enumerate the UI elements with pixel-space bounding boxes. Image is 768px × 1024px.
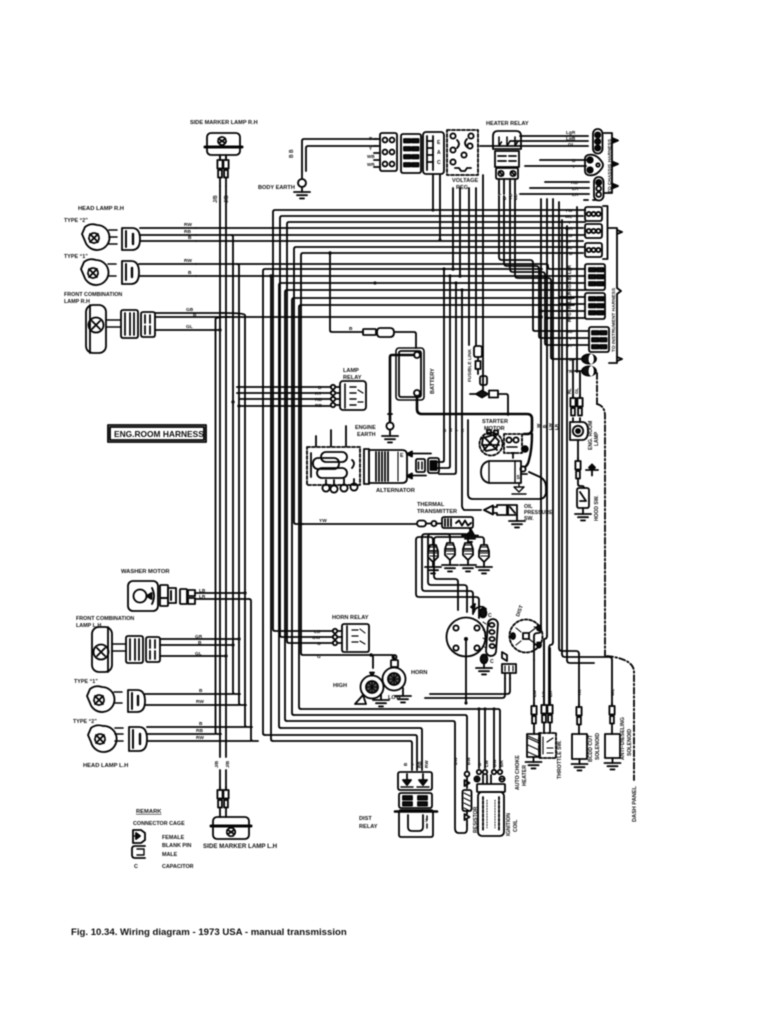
RB LR LR labels [571,180,579,198]
auto choke wire label LW [532,689,537,697]
wire fan y269 [263,269,542,735]
washer wires [195,593,249,599]
heater relay wire drops to F block [499,196,575,359]
throttle sw box [539,733,556,758]
spark plug 4 [476,545,492,573]
head lamp LH type1 [87,686,122,712]
front combination lamp RH [86,305,120,353]
horn relay row labels [312,629,321,660]
YW wire [301,518,442,527]
wires LH type1 [145,694,239,705]
heater relay connector [496,168,518,179]
alternator label [376,488,416,494]
connector pair on side marker RH wire 2 [223,157,228,178]
wires type2 to bus [140,228,196,241]
svg-text:ENGINE: ENGINE [355,425,376,431]
svg-text:REMARK: REMARK [136,809,162,815]
wire fan y298 [292,298,574,715]
svg-text:DIST: DIST [515,604,525,618]
svg-text:LR: LR [572,186,579,192]
fusible link elements [474,346,487,385]
head lamp RH type1 [81,259,116,285]
front combination lamp LH label [76,616,134,629]
voltage reg label [452,178,478,191]
svg-text:COIL: COIL [513,819,519,832]
dash panel label [632,785,638,822]
side marker LH wires2 [220,808,226,818]
svg-text:LgR: LgR [566,130,576,136]
svg-text:TO CHASSIS HARNESS: TO CHASSIS HARNESS [607,138,613,193]
svg-text:GL: GL [195,651,202,657]
connector block D1 [585,207,602,221]
svg-text:LAMP: LAMP [594,431,600,446]
svg-text:FRONT COMBINATION: FRONT COMBINATION [64,292,122,298]
junction dots bundle [464,701,495,710]
instrument harness wire labels upper [565,208,573,256]
svg-text:A: A [437,150,441,156]
front comb LH connector1 [126,636,143,663]
battery label [430,368,436,394]
dash panel boundary upper [596,373,598,404]
type1 LH label [74,679,98,685]
alternator feed verticals [431,269,481,510]
svg-text:LR: LR [199,594,206,600]
svg-text:J/B: J/B [224,195,230,203]
side marker lamp RH body [205,133,242,155]
starter motor label [482,419,508,432]
wire fan y290 [285,290,560,721]
starter cable bullet [520,466,525,471]
coil wire labels [477,759,504,767]
bullet B low [573,354,596,398]
WL label [610,689,615,696]
ignition coil body [477,784,505,836]
bus wire x239 [237,264,246,705]
dist relay wire labels [403,760,429,768]
junction dot G [369,653,372,656]
throttle connectors [541,641,552,733]
bundle line y709 to coil wires [301,709,500,768]
stubs into E blocks [560,269,585,318]
anti diesel connector [609,660,614,734]
ignition coil terminals [474,770,504,783]
engine earth label [355,425,376,438]
verticals from voltage reg to fusible link [469,188,476,345]
auto choke connector [531,660,536,734]
coil wire BW [493,709,495,768]
bullet YR low [575,366,596,398]
svg-text:ENG.ROOM HARNESS: ENG.ROOM HARNESS [114,429,204,439]
connector block E1 [585,264,605,290]
connector block A [374,133,397,171]
svg-text:B: B [188,270,192,276]
spark plug 1 [425,545,441,573]
fusible link label [467,348,473,382]
resistor label [473,806,479,833]
remark heading [136,809,162,815]
starter ground [512,483,526,494]
starter thick cable hook [525,434,532,467]
hood fuse pair [575,458,580,479]
coil wire B [478,709,480,768]
svg-text:Y: Y [454,429,459,432]
svg-text:HEAD LAMP L.H: HEAD LAMP L.H [83,763,128,769]
to chassis harness text [607,138,613,193]
svg-text:RW: RW [196,699,204,705]
svg-text:RB: RB [417,761,422,768]
svg-text:S: S [517,475,521,481]
bus wire side marker B [225,186,227,757]
wire LR bullet [530,187,589,189]
alternator E terminal [400,452,439,479]
throttle labels LY LR [541,690,553,697]
connector block D3 [585,243,602,257]
bundle line y741 to dist relay [273,741,412,770]
D block bracket [603,206,608,259]
svg-text:LB: LB [314,629,321,635]
dist relay label [359,816,378,830]
lamp relay row labels [315,385,322,409]
battery cable to engine earth [390,355,414,421]
battery cable to starter [417,396,532,434]
starter body [481,461,527,483]
svg-text:G: G [317,654,321,660]
svg-text:SIDE MARKER LAMP L.H: SIDE MARKER LAMP L.H [203,843,278,850]
horn relay [342,624,369,652]
lamp relay pins [331,385,340,407]
bcdd label [588,733,601,762]
svg-text:VOLTAGE: VOLTAGE [452,178,478,184]
washer motor label [121,569,170,575]
body earth terminal [294,171,310,198]
female label [162,835,185,841]
thermal transmitter label [417,502,457,515]
svg-text:TRANSMITTER: TRANSMITTER [417,509,457,515]
wire GL to chassis [480,145,588,147]
wire B with bullet to battery [330,253,416,348]
male label [162,852,178,858]
svg-text:TYPE “2”: TYPE “2” [73,719,97,725]
wire second earth branch [306,146,377,171]
svg-text:RL: RL [567,388,572,394]
svg-text:B: B [403,762,408,766]
through verticals from bullets [562,220,567,660]
resistor bullet top [465,772,470,788]
head lamp LH type2 connector [129,727,147,751]
svg-text:HEATER: HEATER [522,765,528,786]
svg-text:BW: BW [453,757,458,765]
spark plug 3 [460,543,476,571]
front comb LH connector2 [146,637,160,662]
svg-text:B: B [198,640,202,646]
wire fan y235 RB [196,234,560,236]
washer motor [128,581,158,611]
svg-text:TYPE “2”: TYPE “2” [64,218,88,224]
horn labels [333,670,427,701]
svg-text:TO INSTRUMENT HARNESS: TO INSTRUMENT HARNESS [611,287,617,352]
wire fan y264 RW type1 [196,264,560,269]
YR label [577,689,582,696]
svg-text:J/B: J/B [213,195,219,203]
thermal transmitter ground [462,528,478,542]
spark plug 2 [442,543,458,571]
svg-text:E: E [437,140,441,146]
jog wires upper verticals to columns [534,630,612,705]
svg-text:HORN: HORN [411,670,427,676]
coil wire LW [484,709,486,768]
eng room lamp wire down [577,440,579,460]
connector block E2 [585,293,605,319]
side marker LH J B labels [214,760,230,768]
svg-text:SOLENOID: SOLENOID [595,733,601,760]
wire fan y253 [301,253,560,655]
svg-text:FUSIBLE LINK: FUSIBLE LINK [467,348,473,382]
svg-text:GL: GL [568,142,575,148]
bcdd connector [576,654,581,734]
head lamp RH type1 connector [122,261,139,284]
stubs into D blocks [560,210,585,253]
svg-text:BCDD CUT: BCDD CUT [588,734,594,762]
svg-text:SW.: SW. [524,516,534,522]
bus wire x245 [222,313,252,727]
bcdd box [572,734,588,770]
type2 LH label [73,719,97,725]
head lamp RH type2 connector [122,228,140,250]
lamp relay wires to bus [237,387,331,406]
plug wire 3 [428,534,468,612]
heater relay top [493,131,521,149]
caption [71,927,347,938]
triangle connector [585,155,603,176]
connector pair on side marker RH wire 1 [217,157,222,178]
svg-text:GL: GL [574,388,579,394]
wire fan y222 [287,222,560,643]
eng room lamp [570,418,588,440]
voltage regulator dashed box [447,130,478,175]
labels B RW lh1 [196,688,204,705]
front combination lamp LH [92,627,126,672]
front comb RH connector2 [141,312,155,337]
svg-text:EARTH: EARTH [357,432,376,438]
wire fan y228 RW [196,227,560,229]
wire LR2 bullet [520,193,589,195]
svg-text:BR: BR [499,760,504,767]
svg-text:ALTERNATOR: ALTERNATOR [376,488,416,494]
throttle sw label [557,740,563,779]
wire LgR to chassis [520,135,588,137]
wire fan y305 [299,305,574,709]
head lamp LH type2 [88,725,123,752]
condenser under dist [502,652,516,679]
svg-text:C: C [488,613,492,619]
ignition coil label [506,813,519,836]
capacitor label [162,864,194,870]
svg-text:TYPE “1”: TYPE “1” [64,254,88,260]
loop wires over plugs [468,420,546,499]
svg-text:HIGH: HIGH [333,683,347,689]
svg-text:B B: B B [289,149,295,158]
head lamp LH type1 connector [128,690,145,712]
front combination lamp RH label [64,292,122,305]
svg-text:FEMALE: FEMALE [162,835,185,841]
oil pressure switch [484,505,517,515]
svg-text:LB: LB [199,588,206,594]
wire fan y283 [279,283,560,728]
svg-text:CONNECTOR CAGE: CONNECTOR CAGE [133,821,185,827]
junction dots bus [218,328,246,657]
svg-text:Y: Y [369,146,372,151]
svg-text:SOLENOID: SOLENOID [627,729,633,756]
junction dots fan [328,208,543,318]
hood sw label [594,495,600,521]
svg-text:RB: RB [315,397,322,403]
washer connector1 [160,585,176,606]
bundle line y715 to resistor [294,715,467,770]
collector vertical [576,207,578,372]
alternator up wires [316,426,346,446]
svg-text:YW: YW [319,518,327,524]
side marker LH fuse B [223,787,228,808]
fusible link junction [470,385,508,415]
hood wire [578,479,584,489]
connector block F [589,327,609,352]
svg-text:HEATER RELAY: HEATER RELAY [486,121,529,127]
J B label top [213,195,230,203]
anti diesel box [605,734,621,769]
svg-text:Y: Y [572,164,576,170]
resistor body [463,790,472,811]
lamp relay label [343,368,362,381]
eng room harness box [108,425,206,442]
verticals VR to E rows [453,188,460,276]
through verticals right-mid [541,199,559,648]
plug wire 1 [416,537,479,618]
dist relay connector 1 [398,772,432,790]
svg-text:GW: GW [312,635,321,641]
head lamp RH label [78,206,124,212]
svg-text:BW: BW [466,757,471,765]
labels B RB RW lh2 [196,721,204,741]
engine earth terminal [382,414,398,442]
male symbol [132,846,145,858]
stubs into F [574,331,589,345]
svg-text:G: G [317,641,321,647]
wires front comb LH [160,639,239,656]
bus wire x233 [231,235,240,694]
dist relay body [395,810,437,837]
B Y labels [572,158,576,170]
body mount cross [586,465,598,476]
svg-text:REG.: REG. [456,185,470,191]
oil pressure sw ground [509,515,525,527]
thermal transmitter body [442,517,473,528]
starter motor switch circle [480,430,503,456]
plug wire 4 [434,537,484,610]
side marker lamp RH label [190,120,258,126]
oil pressure sw label [524,504,553,522]
wires front comb RH [155,313,230,330]
dist relay connector 2 [399,793,432,808]
high horn [355,673,389,707]
heater relay wires down [499,179,515,194]
branch y276 to bundle [271,276,273,741]
svg-text:B: B [349,326,353,332]
G wire to horns [371,655,373,668]
wire RB bullet [545,181,589,183]
svg-text:LR: LR [572,192,579,198]
svg-text:RW: RW [196,735,204,741]
dist label [515,604,525,618]
svg-text:B: B [193,312,197,318]
labels GR B GL lh [195,634,203,657]
plug wire 2 [422,534,473,614]
connector block A pin labels [367,136,375,167]
wire long y317 [228,316,539,318]
low horn [383,655,412,702]
auto choke label [515,755,528,790]
side marker lamp LH label [203,843,278,850]
svg-text:BODY EARTH: BODY EARTH [258,185,295,191]
bus wire x215 [216,317,229,734]
instrument harness labels lower [566,329,573,374]
capsule connector RB LR LR [594,177,604,201]
capacitor symbol [134,864,138,870]
svg-text:LAMP: LAMP [343,368,359,374]
alternator dashed box [307,447,360,493]
svg-text:STARTER: STARTER [482,419,508,425]
distributor body [447,618,486,657]
crossing verticals mid [433,175,440,240]
svg-text:BLANK PIN: BLANK PIN [162,843,191,849]
instrument harness wire labels mid [567,264,572,322]
to chassis harness bracket [604,133,618,193]
connector cage [133,821,185,827]
wire fan y241 B [196,240,560,242]
connector block B [401,134,421,173]
svg-text:THROTTLE SW.: THROTTLE SW. [557,740,563,779]
svg-text:B: B [318,385,322,391]
labels RW B [184,258,192,276]
wire fan y216 [280,216,560,637]
svg-text:LOW: LOW [388,695,402,701]
to instrument harness bracket [609,228,622,363]
wire fan y210 [273,210,560,631]
svg-text:RW: RW [184,222,192,228]
head lamp RH type2 [82,224,117,250]
side marker lamp LH [211,817,251,839]
rotor dashed circle [510,620,543,653]
svg-text:MALE: MALE [162,852,178,858]
svg-text:RELAY: RELAY [359,824,378,830]
svg-text:B: B [572,158,576,164]
lamp relay [340,381,366,410]
wires LH type2 [147,727,251,741]
alternator body [364,449,407,484]
wire side marker RH down bus [220,178,226,187]
svg-text:HORN RELAY: HORN RELAY [332,615,369,621]
dash panel boundary lower [607,656,634,780]
svg-text:RW: RW [424,760,429,768]
type2 label [64,218,88,224]
svg-text:B: B [199,688,203,694]
svg-text:BATTERY: BATTERY [430,368,436,394]
bus wire x251 [249,599,258,741]
wire fan y247 [294,247,560,524]
female symbol [133,830,145,843]
alternator feed dots [442,267,463,291]
svg-text:CAPACITOR: CAPACITOR [162,864,194,870]
BW BW labels [453,757,471,765]
